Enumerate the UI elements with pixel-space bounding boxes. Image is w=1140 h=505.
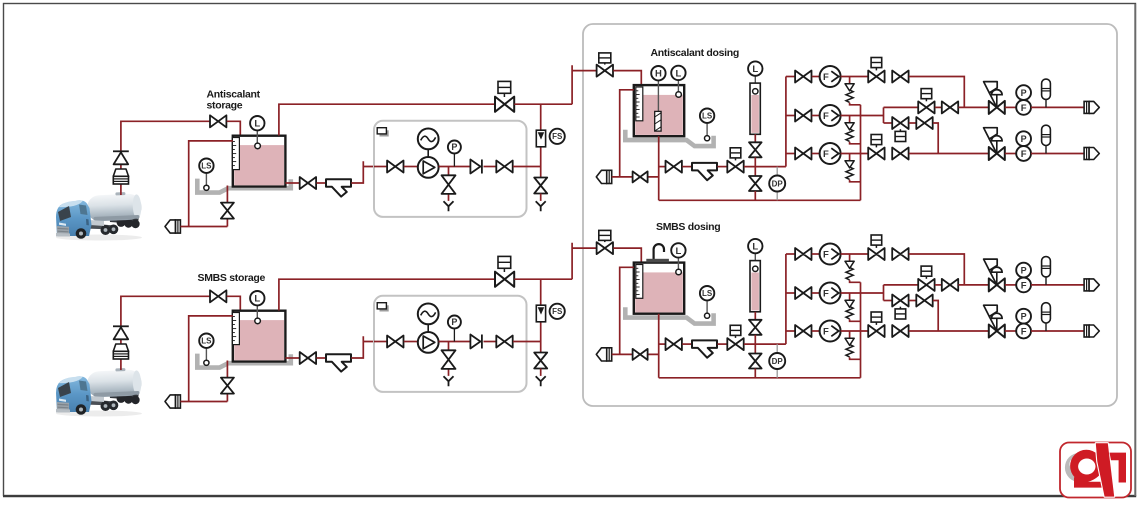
relief return header DA [659,199,861,201]
dosing level switch LS DB [706,300,708,313]
pump 1 discharge pipe DB [841,253,869,255]
pump 3 relief outlet DA [850,180,861,182]
motorised valve on transfer line ST-A [495,97,514,112]
relief return header DB [659,377,861,379]
tank level gauge ST-B [232,313,239,345]
dosing tank level gauge DB [636,265,643,299]
pump 1 discharge solenoid valve DB [868,248,884,260]
branch pipe to line 2 DB [933,301,938,332]
differential pressure transmitter DP DA [776,167,778,201]
dosing tank outlet pipe DA [658,136,660,200]
level transmitter L ST-B [256,306,258,319]
line 2 flow indicator F DB [1016,324,1031,339]
pump 3 discharge solenoid valve DA [868,148,884,160]
column drain valve DA [749,176,762,191]
flush connector ST-B [165,395,180,408]
pump 1 discharge valve DA [892,71,908,83]
metering pump ST-B [418,332,439,353]
tanker truck ST-A [56,191,142,240]
skid suction valve ST-A [387,161,403,173]
suction strainer DA [692,163,717,180]
suction strainer ST-B [326,354,351,371]
dosing tank level gauge DA [636,87,643,121]
pump row 1 wire DB [812,253,820,255]
line 1 pressure control valve DA [984,82,1005,114]
svg-text:L: L [254,294,260,305]
line 1 flow indicator F DB [1016,278,1031,293]
svg-text:F: F [1021,280,1027,291]
pump row 2 suction valve DB [795,287,811,299]
suction solenoid valve DB [727,338,743,350]
calibration column transmitter L DB [754,253,756,266]
pump 3 discharge solenoid valve DB [868,325,884,337]
pressure gauge P ST-A [453,153,455,166]
svg-text:DP: DP [772,357,784,366]
skid icon ST-A [377,128,389,137]
pump 2 relief valve DB [845,293,854,319]
dosing pump 1 DA [820,66,841,87]
pump 1 line to header DB [909,254,964,285]
crossover pipe DA [883,107,885,123]
pump discharge pipe ST-B [439,341,470,343]
wire strainer to solenoid DB [718,343,728,345]
svg-text:L: L [254,119,260,130]
line 2 pipe DA [1005,153,1016,155]
tray drain pipe ST-A [226,186,228,227]
line 1 pipe to PCV DB [959,284,990,286]
pump row 1 suction valve DA [795,71,811,83]
svg-text:L: L [675,246,681,257]
line 1 end connector DA [1084,101,1099,113]
crossover pipe DB [883,285,885,301]
line 2 pulsation dampener DA [1042,125,1051,153]
inlet pipe to tank DB [613,248,641,263]
svg-text:F: F [823,111,829,122]
svg-text:FS: FS [552,307,563,316]
pump 1 discharge pipe DA [841,76,869,78]
motor shaft ST-A [427,149,429,157]
pump 3 relief outlet DB [850,357,861,359]
transfer pipe to dosing system ST-B [514,278,572,280]
dosing tank overflow DB [620,267,634,354]
skid drain funnel ST-B [444,376,454,386]
pump row 1 suction DB [786,253,795,255]
dosing systems enclosure box [583,24,1117,406]
crossover branch pipe DB [884,300,893,302]
branch valve DA [909,122,917,124]
suction lance DA [655,111,661,131]
svg-text:FS: FS [552,132,563,141]
svg-text:L: L [752,64,758,75]
crossover branch pipe DA [884,122,893,124]
line 1 end connector DB [1084,279,1099,291]
tank outlet pipe ST-A [285,182,299,184]
level switch LS ST-A [205,173,207,185]
vent drain valve ST-B [534,353,547,369]
pump 2 discharge pipe DA [841,115,884,117]
skid relief valve ST-B [442,350,456,369]
svg-text:F: F [823,326,829,337]
pump row 3 suction DA [786,153,795,155]
column isolation valve DA [749,142,762,157]
pump row 1 suction DA [786,76,795,78]
pump suction pipe DA [659,166,666,168]
line 2 outlet pipe DA [1031,153,1084,155]
svg-text:P: P [1021,311,1027,321]
wire to suction strainer DA [682,166,692,168]
pump row 2 suction valve DA [795,110,811,122]
skid relief branch ST-A [448,167,450,201]
overflow pipe ST-A [189,141,233,227]
line 1 pipe DA [1005,106,1016,108]
tray drain valve ST-B [221,378,234,394]
pump 3 discharge valve DB [892,325,908,337]
dosing tank DB [634,263,684,314]
pump 3 discharge pipe DA [841,153,869,155]
calibration column DA [750,83,760,134]
branch valve DB [909,300,917,302]
wire fill line to tank ST-B [227,296,241,310]
pump 2 relief outlet DA [850,142,861,144]
relief collection header DB [860,282,862,378]
dosing pump 2 DA [820,105,841,126]
transfer riser to antiscalant dosing [572,65,596,104]
skid discharge valve ST-A [496,161,512,173]
vent gooseneck DB [654,244,664,259]
line 1 outlet pipe DB [1031,284,1084,286]
column pipe down DB [754,312,756,320]
skid relief branch ST-B [448,342,450,376]
tank vent header ST-B [279,279,495,310]
wire fill line to tank ST-A [227,121,241,135]
svg-text:F: F [823,72,829,83]
line 2 flow indicator F DA [1016,146,1031,161]
fill pipe from truck ST-A [121,121,210,195]
pump 2 relief valve DA [845,116,854,142]
svg-text:F: F [1021,149,1027,160]
skid icon ST-B [377,303,389,312]
svg-text:L: L [752,242,758,253]
dosing flush pipe DA [612,176,659,178]
wire strainer to solenoid DA [718,166,728,168]
line 2 end connector DB [1084,325,1099,337]
line 1 pulsation dampener DA [1042,79,1051,107]
tank outlet valve ST-B [300,352,316,364]
svg-text:H: H [655,69,662,80]
flow switch FS ST-B [550,304,565,319]
pump 1 line to header DA [909,77,964,108]
dosing flush valve DA [633,171,648,182]
svg-text:LS: LS [201,162,212,171]
pump row 2 suction DA [786,115,795,117]
suction pipe to pumps DB [744,343,786,345]
fill pipe from truck ST-B [121,296,210,370]
skid inlet pipe ST-B [374,341,387,343]
line 2 pressure control valve DA [984,128,1005,160]
pump 2 discharge pipe DB [841,292,884,294]
pump 1 discharge solenoid valve DA [868,71,884,83]
pump 3 relief valve DA [845,154,854,180]
line 1 solenoid valve DB [918,279,934,291]
tank level gauge ST-A [232,138,239,170]
tray drain pipe ST-B [226,361,228,402]
tanker coupling ST-A [113,169,128,184]
pump 2 relief outlet DB [850,319,861,321]
suction strainer DB [692,340,717,357]
svg-text:DP: DP [772,179,784,188]
skid relief valve ST-A [442,175,456,194]
suction solenoid valve DA [727,161,743,173]
branch pipe to line 2 DA [933,123,938,154]
vent drain funnel ST-A [536,201,546,211]
tanker truck ST-B [56,367,142,416]
relief collection header DA [860,105,862,201]
flush header pipe ST-B [180,401,227,403]
line 2 end connector DA [1084,148,1099,160]
pump row 1 wire DA [812,76,820,78]
flow indicator rotameter ST-A [536,130,545,147]
pump row 3 wire DA [812,153,820,155]
line 1 pressure indicator P DA [1016,85,1031,100]
motorised valve on transfer line ST-B [495,272,514,287]
skid suction valve ST-B [387,336,403,348]
wire to strainer ST-B [317,357,327,359]
dosing tank DA [634,85,684,136]
tank outlet pipe ST-B [285,357,299,359]
pump row 3 suction valve DA [795,148,811,160]
pump row 2 wire DB [812,292,820,294]
pump 1 relief valve DA [845,77,854,103]
fill line isolation valve ST-A [210,115,226,127]
pump row 3 suction DB [786,330,795,332]
svg-text:F: F [823,288,829,299]
line 1 pressure indicator P DB [1016,263,1031,278]
suction isolation valve DA [666,161,682,173]
pump motor ST-A [418,129,439,150]
column isolation valve DB [749,320,762,335]
flush header pipe ST-A [180,226,227,228]
storage tank ST-B [233,311,286,362]
dosing pump 3 DA [820,143,841,164]
dosing pump skid enclosure ST-B [374,296,527,392]
column pipe down DA [754,134,756,142]
pump row 1 suction valve DB [795,248,811,260]
dosing tank drip tray DA [625,130,713,146]
line 1 pulsation dampener DB [1042,257,1051,285]
discharge line 2 pipe DA [909,153,989,155]
pump 1 discharge valve DB [892,248,908,260]
column lower pipe DA [754,157,756,176]
wire check to valve ST-B [484,341,497,343]
suction strainer ST-A [326,179,351,196]
wire to pump ST-B [404,341,418,343]
svg-text:F: F [823,249,829,260]
svg-text:SMBS storage: SMBS storage [198,272,266,284]
tank vent header ST-A [279,104,495,135]
overflow pipe ST-B [189,316,233,402]
svg-text:F: F [1021,326,1027,337]
skid inlet pipe ST-A [374,166,387,168]
skid outlet pipe ST-B [513,341,541,343]
svg-text:Antiscalant dosing: Antiscalant dosing [651,47,740,59]
discharge line 2 pipe DB [909,330,989,332]
fill line isolation valve ST-B [210,290,226,302]
discharge line 1 pipe DB [884,284,919,286]
suction pipe to pumps DA [744,166,786,168]
line 1 pipe DB [1005,284,1016,286]
line 2 pressure control valve DB [984,305,1005,337]
pump 3 relief valve DB [845,331,854,357]
flow switch branch pipe ST-B [540,279,542,353]
dosing tank inlet valve DA [597,65,613,77]
skid outlet pipe ST-A [513,166,541,168]
svg-text:SMBS dosing: SMBS dosing [656,221,720,233]
line 1 valve DA [935,106,942,108]
vent drain valve ST-A [534,178,547,194]
pressure gauge P ST-B [453,328,455,341]
branch solenoid valve DA [892,117,908,129]
drip tray ST-B [197,354,290,368]
line 1 outlet pipe DA [1031,106,1084,108]
inlet pipe to tank DA [613,71,641,86]
transfer riser to SMBS dosing [572,243,596,279]
svg-text:L: L [675,68,681,79]
skid drain funnel ST-A [444,201,454,211]
skid check valve ST-B [470,335,482,349]
svg-text:P: P [451,317,457,327]
check valve on fill line ST-A [113,151,129,164]
svg-text:F: F [1021,103,1027,114]
svg-text:P: P [1021,134,1027,144]
column lower pipe DB [754,335,756,354]
pump 1 relief valve DB [845,254,854,280]
suction isolation valve DB [666,338,682,350]
svg-text:P: P [451,142,457,152]
dosing pump 3 DB [820,321,841,342]
svg-text:LS: LS [702,289,713,298]
pump 1 relief outlet DA [850,103,861,105]
line 1 pipe to PCV DA [959,106,990,108]
tank lid DB [646,259,669,263]
dosing flush pipe DB [612,353,659,355]
level transmitter L ST-A [256,131,258,144]
differential pressure transmitter DP DB [776,344,778,378]
svg-text:P: P [1021,88,1027,98]
dosing flush connector DB [596,348,611,361]
tray drain valve ST-A [221,203,234,219]
column drain valve DB [749,354,762,369]
dosing pump 1 DB [820,244,841,265]
calibration column transmitter L DA [754,76,756,89]
dosing level transmitter L DB [677,258,679,270]
wire to pump ST-A [404,166,418,168]
pump row 3 wire DB [812,330,820,332]
svg-text:LS: LS [201,337,212,346]
flow switch FS ST-A [550,129,565,144]
line 2 pulsation dampener DB [1042,303,1051,331]
line 1 valve DB [935,284,942,286]
flow switch branch pipe ST-A [540,104,542,178]
dosing tank overflow DA [620,90,634,177]
pump suction header DA [785,77,787,167]
wire to suction strainer DB [682,343,692,345]
column drain pipe DA [754,191,756,200]
dosing flush valve DB [633,349,648,360]
line 2 pressure indicator P DA [1016,131,1031,146]
pump 3 discharge valve DA [892,148,908,160]
dosing flush connector DA [596,170,611,183]
wire strainer to skid ST-B [351,336,387,358]
skid discharge valve ST-B [496,336,512,348]
wire strainer to skid ST-A [351,161,387,183]
level switch LS ST-B [205,348,207,360]
wire check to valve ST-A [484,166,497,168]
tank outlet valve ST-A [300,177,316,189]
dosing tank drip tray DB [625,307,713,323]
svg-text:LS: LS [702,112,713,121]
pump suction header DB [785,254,787,344]
vent drain funnel ST-B [536,376,546,386]
drip tray ST-A [197,179,290,193]
dosing pump skid enclosure ST-A [374,121,527,217]
discharge line 1 pipe DA [884,106,919,108]
line 1 solenoid valve DA [918,101,934,113]
pump row 2 wire DA [812,115,820,117]
wire to strainer ST-A [317,182,327,184]
calibration column DB [750,261,760,312]
skid check valve ST-A [470,160,482,174]
svg-text:F: F [823,149,829,160]
pump 1 relief outlet DB [850,280,861,282]
motor shaft ST-B [427,324,429,332]
svg-text:storage: storage [207,100,243,112]
line 2 pressure indicator P DB [1016,309,1031,324]
line 2 pipe DB [1005,330,1016,332]
2N company logo [1060,443,1131,498]
pump motor ST-B [418,304,439,325]
flush connector ST-A [165,220,180,233]
line 2 outlet pipe DB [1031,330,1084,332]
storage tank ST-A [233,136,286,187]
dosing pump 2 DB [820,283,841,304]
pump suction pipe DB [659,343,666,345]
line 1 flow indicator F DA [1016,100,1031,115]
branch solenoid valve DB [892,295,908,307]
pump discharge pipe ST-A [439,166,470,168]
dosing tank inlet valve DB [597,242,613,254]
pump row 2 suction DB [786,292,795,294]
pump 3 discharge pipe DB [841,330,869,332]
high level switch H DA [657,80,659,111]
transfer pipe to dosing system ST-A [514,103,572,105]
column drain pipe DB [754,369,756,378]
svg-text:P: P [1021,265,1027,275]
dosing tank outlet pipe DB [658,314,660,378]
flow indicator rotameter ST-B [536,305,545,322]
dosing level transmitter L DA [677,80,679,92]
tanker coupling ST-B [113,344,128,359]
pump row 3 suction valve DB [795,325,811,337]
dosing level switch LS DA [706,123,708,136]
check valve on fill line ST-B [113,326,129,339]
line 1 pressure control valve DB [984,259,1005,291]
metering pump ST-A [418,157,439,178]
